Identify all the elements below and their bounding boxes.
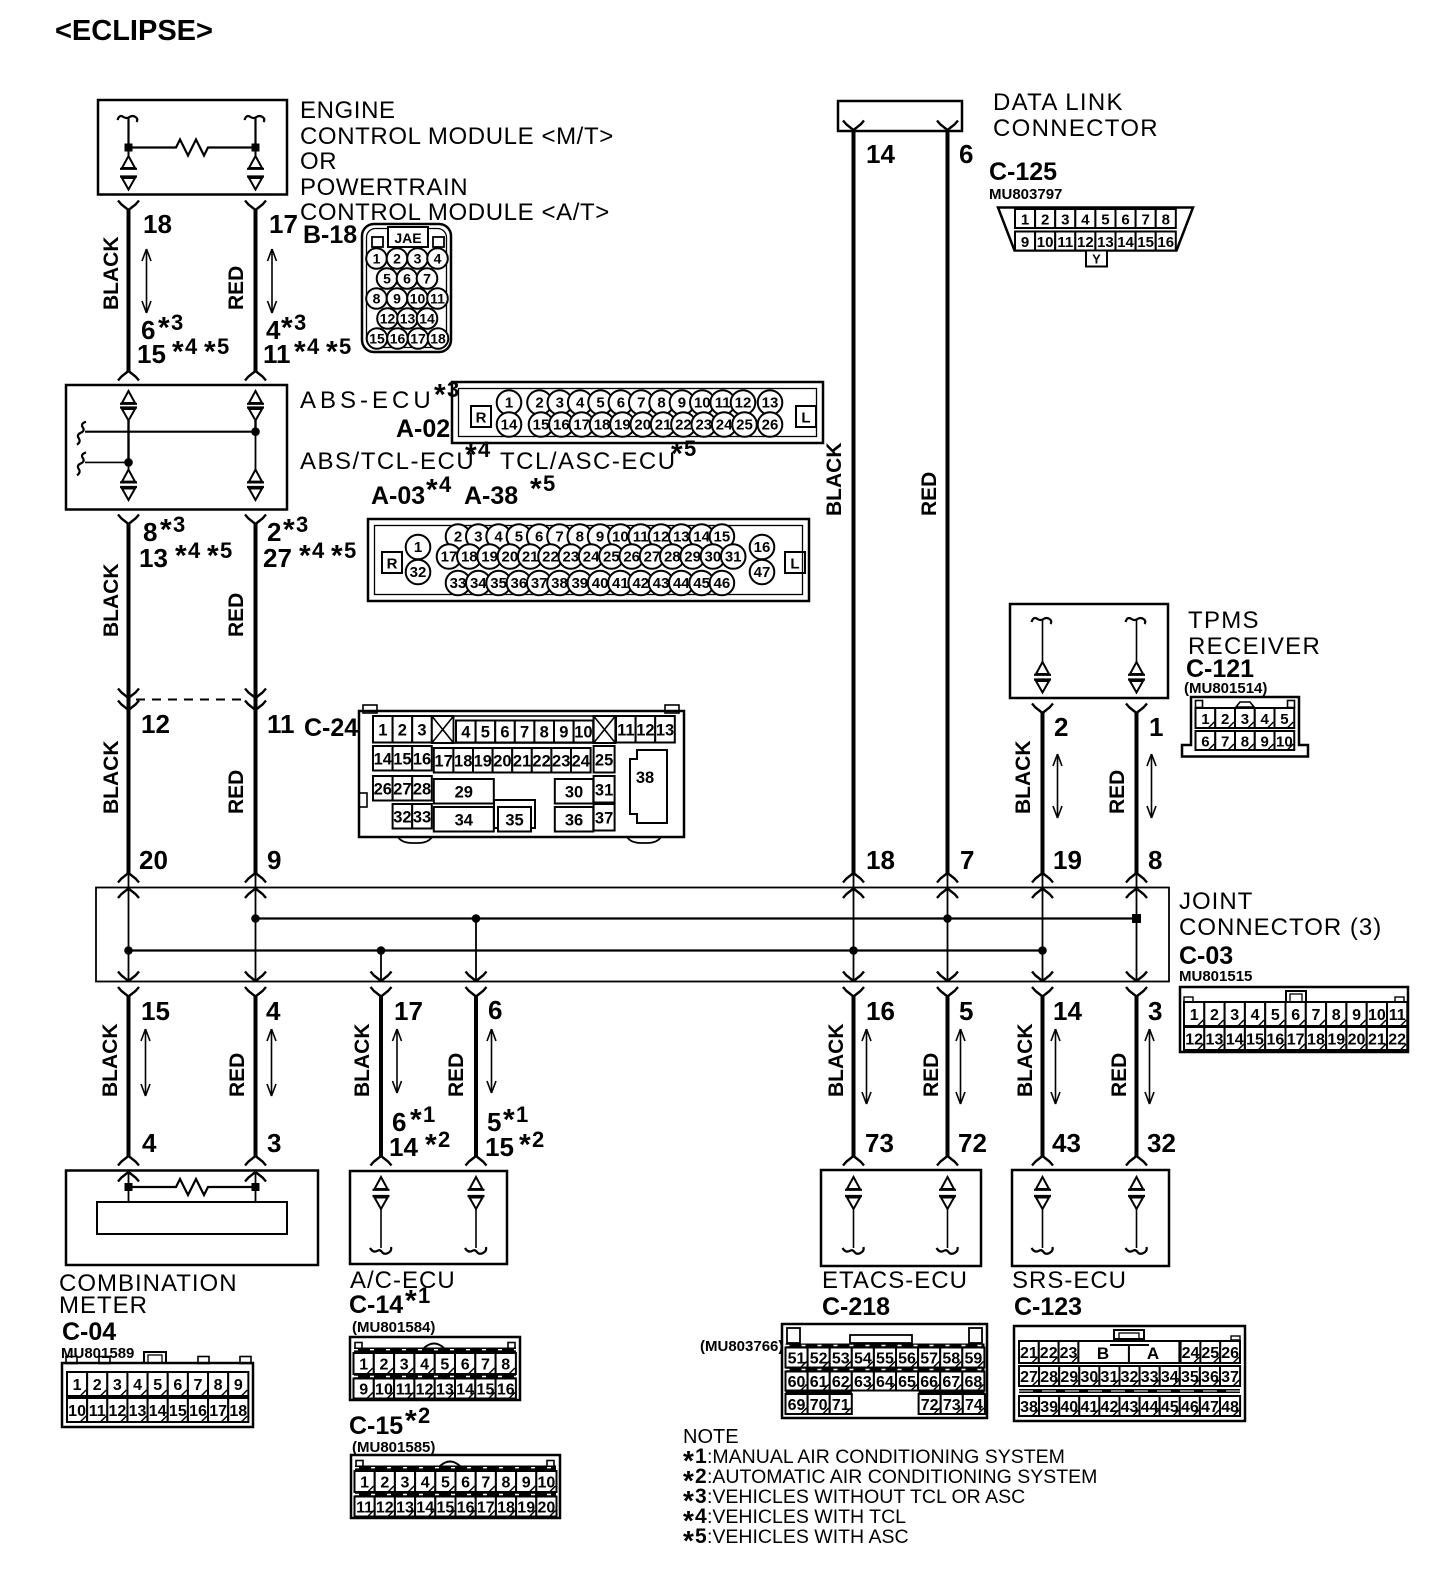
svg-text:10: 10 xyxy=(68,1403,86,1420)
svg-text:9: 9 xyxy=(596,529,604,546)
ABS ECU internal pins and links xyxy=(77,391,264,500)
svg-text:5: 5 xyxy=(441,1475,450,1492)
joint connector pass-through wire 20/15 xyxy=(118,873,139,997)
svg-text:11: 11 xyxy=(430,291,445,307)
svg-text:9: 9 xyxy=(393,291,401,307)
svg-text:14: 14 xyxy=(419,311,435,327)
svg-text:23: 23 xyxy=(562,549,579,566)
svg-text:1: 1 xyxy=(516,1102,528,1127)
svg-text:17: 17 xyxy=(394,996,423,1026)
label engine control module xyxy=(300,97,614,226)
svg-text:R: R xyxy=(476,410,487,427)
svg-text:4: 4 xyxy=(461,724,471,742)
svg-text:14: 14 xyxy=(1053,996,1082,1026)
svg-text:33: 33 xyxy=(413,808,431,826)
svg-text:C-24: C-24 xyxy=(304,714,358,742)
svg-text:4: 4 xyxy=(1081,212,1090,229)
ECU box: combination meter xyxy=(66,1171,318,1266)
svg-text:19: 19 xyxy=(614,417,631,434)
svg-text:19: 19 xyxy=(481,549,498,566)
svg-text:5: 5 xyxy=(596,395,604,412)
svg-text:*: * xyxy=(683,1525,694,1556)
svg-text:21: 21 xyxy=(513,752,531,770)
label combination meter xyxy=(59,1270,238,1362)
ECU box: A/C-ECU xyxy=(350,1171,507,1264)
wire BLACK joint 15 to meter 4 xyxy=(118,997,139,1182)
svg-text:BLACK: BLACK xyxy=(351,1024,374,1098)
connector C-14 pinout xyxy=(350,1337,520,1400)
svg-text:3: 3 xyxy=(556,395,564,412)
svg-text:17: 17 xyxy=(441,549,458,566)
svg-text:26: 26 xyxy=(623,549,640,566)
svg-text:3: 3 xyxy=(1148,996,1162,1026)
svg-text:12: 12 xyxy=(380,311,396,327)
svg-text:2: 2 xyxy=(1041,212,1049,229)
svg-text:8: 8 xyxy=(214,1377,223,1394)
svg-text:BLACK: BLACK xyxy=(1014,1024,1037,1098)
svg-text:POWERTRAIN: POWERTRAIN xyxy=(300,174,468,201)
svg-text:6: 6 xyxy=(461,1357,470,1374)
wire BLACK TPMS 2 xyxy=(1032,704,1053,874)
svg-text:B: B xyxy=(1097,1344,1109,1363)
svg-text:36: 36 xyxy=(511,575,528,592)
svg-text:1: 1 xyxy=(73,1377,82,1394)
svg-text:19: 19 xyxy=(474,752,492,770)
svg-text:4: 4 xyxy=(188,538,201,563)
svg-text:1: 1 xyxy=(418,1283,430,1308)
svg-text:METER: METER xyxy=(59,1292,148,1319)
connector A-03 / A-38 pinout xyxy=(368,519,809,601)
svg-text:14: 14 xyxy=(866,139,895,169)
svg-text:4: 4 xyxy=(576,395,585,412)
svg-text:RED: RED xyxy=(225,266,248,310)
label ETACS-ECU xyxy=(822,1267,968,1321)
wire BLACK data link 14 xyxy=(852,131,856,873)
svg-text:RED: RED xyxy=(445,1053,468,1097)
svg-text:9: 9 xyxy=(678,395,686,412)
svg-text:27: 27 xyxy=(263,543,292,573)
svg-text:34: 34 xyxy=(455,811,474,829)
svg-text:DATA LINK: DATA LINK xyxy=(993,89,1124,116)
svg-text:*: * xyxy=(175,540,187,573)
svg-text:11: 11 xyxy=(267,709,295,739)
joint connector bus bar lower xyxy=(124,946,1047,955)
svg-text:ABS-ECU: ABS-ECU xyxy=(300,387,435,414)
svg-text:C-125: C-125 xyxy=(989,158,1057,186)
svg-text:L: L xyxy=(790,556,799,573)
svg-text:RED: RED xyxy=(225,770,248,814)
svg-text:17: 17 xyxy=(209,1403,227,1420)
svg-text:3: 3 xyxy=(1061,212,1069,229)
svg-text:A-38: A-38 xyxy=(464,482,518,510)
label SRS-ECU xyxy=(1012,1267,1127,1321)
svg-text:24: 24 xyxy=(572,752,591,770)
svg-text:*: * xyxy=(204,336,216,369)
svg-text:25: 25 xyxy=(736,417,753,434)
svg-text:BLACK: BLACK xyxy=(100,564,123,638)
svg-text:BLACK: BLACK xyxy=(100,237,123,311)
svg-text:8: 8 xyxy=(501,1357,510,1374)
svg-text:35: 35 xyxy=(490,575,507,592)
wire BLACK pin 8/13 to joint 20 xyxy=(118,515,139,874)
joint connector tap wire at x=476 xyxy=(466,919,487,997)
labels wires below joint, SRS pair xyxy=(1014,996,1176,1158)
svg-text:6: 6 xyxy=(535,529,543,546)
svg-text:12: 12 xyxy=(141,709,170,739)
svg-text:4: 4 xyxy=(1260,711,1269,728)
svg-text:12: 12 xyxy=(1077,234,1094,251)
svg-text:8: 8 xyxy=(657,395,665,412)
svg-text:8: 8 xyxy=(1148,845,1162,875)
connector C-24 pinout xyxy=(359,705,684,843)
svg-text:(MU803766): (MU803766) xyxy=(700,1338,783,1355)
svg-text:4: 4 xyxy=(133,1377,142,1394)
svg-text:20: 20 xyxy=(493,752,511,770)
svg-text:3: 3 xyxy=(400,1357,409,1374)
svg-text:A/C-ECU: A/C-ECU xyxy=(350,1267,456,1294)
svg-text:24: 24 xyxy=(716,417,733,434)
svg-text:8: 8 xyxy=(1241,734,1249,751)
note block xyxy=(683,1426,1097,1556)
svg-text:(MU801585): (MU801585) xyxy=(352,1439,435,1456)
svg-text:11: 11 xyxy=(89,1403,106,1420)
svg-text:5: 5 xyxy=(220,538,232,563)
connector C-04 pinout xyxy=(62,1352,253,1427)
svg-text:TPMS: TPMS xyxy=(1188,607,1260,634)
svg-text:15: 15 xyxy=(137,339,166,369)
svg-text:A: A xyxy=(1147,1344,1159,1363)
svg-text:18: 18 xyxy=(229,1403,247,1420)
svg-text:4: 4 xyxy=(312,538,325,563)
svg-text:C-14: C-14 xyxy=(349,1291,403,1319)
svg-text:6: 6 xyxy=(173,1377,182,1394)
labels data link wires xyxy=(823,139,973,516)
labels TPMS wires xyxy=(1012,712,1163,875)
box: data link connector xyxy=(838,101,962,131)
svg-text:7: 7 xyxy=(637,395,645,412)
svg-text:6: 6 xyxy=(617,395,625,412)
svg-text:11: 11 xyxy=(715,395,731,412)
wire RED data link 6 xyxy=(946,131,950,873)
SRS-ECU internal pins xyxy=(1032,1177,1147,1254)
svg-text:37: 37 xyxy=(531,575,548,592)
svg-text:BLACK: BLACK xyxy=(825,1024,848,1098)
labels ABS-ECU xyxy=(300,377,696,510)
labels segment 1 left xyxy=(100,209,229,369)
wire RED pin 2/27 to joint 9 xyxy=(245,515,266,874)
svg-text:6: 6 xyxy=(403,271,411,287)
svg-text:15: 15 xyxy=(714,529,731,546)
svg-text:ENGINE: ENGINE xyxy=(300,97,396,124)
svg-text:6: 6 xyxy=(1121,212,1129,229)
svg-text:7: 7 xyxy=(1221,734,1229,751)
joint connector tap wire at x=381 xyxy=(371,951,392,997)
box: joint connector C-03 xyxy=(96,888,1169,982)
svg-text:21: 21 xyxy=(522,549,539,566)
svg-text:73: 73 xyxy=(865,1128,894,1158)
svg-text:16: 16 xyxy=(1157,234,1174,251)
svg-text:A-03: A-03 xyxy=(371,482,425,510)
svg-text:4: 4 xyxy=(421,1475,430,1492)
svg-text:10: 10 xyxy=(410,291,426,307)
svg-text:4: 4 xyxy=(307,334,320,359)
svg-text:10: 10 xyxy=(612,529,629,546)
svg-text:1: 1 xyxy=(1201,711,1209,728)
svg-text:6: 6 xyxy=(1201,734,1209,751)
svg-text:5: 5 xyxy=(1271,1007,1280,1024)
labels wires below joint, ETACS pair xyxy=(825,996,987,1158)
svg-text:3: 3 xyxy=(1230,1007,1239,1024)
svg-text:SRS-ECU: SRS-ECU xyxy=(1012,1267,1127,1294)
svg-text:29: 29 xyxy=(455,783,473,801)
svg-text:36: 36 xyxy=(565,811,583,829)
svg-text:*: * xyxy=(331,540,343,573)
joint connector pass-through wire 7/5 xyxy=(937,873,958,997)
svg-text:13: 13 xyxy=(400,311,416,327)
svg-text:16: 16 xyxy=(866,996,895,1026)
svg-text:8: 8 xyxy=(576,529,584,546)
svg-text:*: * xyxy=(425,1129,437,1162)
svg-text:ABS/TCL-ECU: ABS/TCL-ECU xyxy=(300,448,475,475)
connector B-18 pinout (JAE) xyxy=(362,224,451,352)
svg-text:3: 3 xyxy=(401,1475,410,1492)
svg-text:C-121: C-121 xyxy=(1186,655,1254,683)
svg-text:5: 5 xyxy=(1101,212,1109,229)
svg-text:17: 17 xyxy=(410,331,426,347)
svg-text:7: 7 xyxy=(1311,1007,1320,1024)
svg-text:15: 15 xyxy=(533,417,550,434)
joint connector bus bar upper xyxy=(251,914,1141,923)
svg-text:*: * xyxy=(207,540,219,573)
svg-text:1: 1 xyxy=(1149,712,1163,742)
svg-text:RED: RED xyxy=(226,1053,249,1097)
svg-text:43: 43 xyxy=(653,575,670,592)
svg-text:9: 9 xyxy=(234,1377,243,1394)
svg-text:42: 42 xyxy=(632,575,649,592)
svg-text:13: 13 xyxy=(656,721,674,739)
svg-text:39: 39 xyxy=(571,575,588,592)
svg-text:L: L xyxy=(801,410,810,427)
svg-text:4: 4 xyxy=(494,529,503,546)
svg-text:37: 37 xyxy=(595,809,613,827)
svg-text:Y: Y xyxy=(1092,252,1101,267)
svg-text:29: 29 xyxy=(684,549,701,566)
svg-text:3: 3 xyxy=(296,512,308,537)
svg-text:3: 3 xyxy=(267,1128,281,1158)
svg-text:33: 33 xyxy=(450,575,467,592)
svg-text:18: 18 xyxy=(461,549,478,566)
svg-text:7: 7 xyxy=(481,1475,490,1492)
connector C-15 pinout xyxy=(351,1455,560,1518)
ECU box: ABS-ECU / ABS-TCL-ECU xyxy=(66,385,287,510)
svg-text:JAE: JAE xyxy=(394,230,421,246)
svg-text:25: 25 xyxy=(603,549,620,566)
label A/C-ECU xyxy=(349,1267,456,1336)
connector C-121 pinout xyxy=(1182,697,1308,757)
svg-text:8: 8 xyxy=(540,724,549,742)
svg-text:20: 20 xyxy=(502,549,519,566)
svg-text:*: * xyxy=(426,474,438,507)
svg-text:5: 5 xyxy=(481,724,490,742)
svg-text:16: 16 xyxy=(189,1403,207,1420)
svg-text:8: 8 xyxy=(1162,212,1170,229)
svg-text:MU803797: MU803797 xyxy=(989,186,1062,203)
svg-text:14: 14 xyxy=(693,529,710,546)
svg-text:1: 1 xyxy=(378,721,387,739)
labels segment 2 left xyxy=(100,512,232,875)
svg-text:JOINT: JOINT xyxy=(1179,888,1253,915)
svg-text:9: 9 xyxy=(359,1382,368,1399)
svg-text:31: 31 xyxy=(595,781,613,799)
svg-text:16: 16 xyxy=(553,417,570,434)
svg-text:38: 38 xyxy=(636,769,654,787)
svg-text:9: 9 xyxy=(1352,1007,1361,1024)
svg-text:1: 1 xyxy=(1021,212,1029,229)
svg-text:26: 26 xyxy=(374,780,392,798)
svg-text:30: 30 xyxy=(705,549,722,566)
svg-text::VEHICLES WITH TCL: :VEHICLES WITH TCL xyxy=(707,1506,906,1528)
svg-text:BLACK: BLACK xyxy=(1012,741,1035,815)
svg-text:19: 19 xyxy=(1053,845,1082,875)
svg-text:3: 3 xyxy=(474,529,482,546)
svg-text:32: 32 xyxy=(1147,1128,1176,1158)
connector C-123 pinout xyxy=(1014,1326,1245,1421)
svg-text::MANUAL AIR CONDITIONING SYSTE: :MANUAL AIR CONDITIONING SYSTEM xyxy=(707,1446,1065,1468)
svg-text:7: 7 xyxy=(555,529,563,546)
svg-text:C-218: C-218 xyxy=(822,1293,890,1321)
svg-text:47: 47 xyxy=(754,564,771,581)
svg-text:5: 5 xyxy=(695,1525,707,1548)
svg-text:(MU801584): (MU801584) xyxy=(352,1319,435,1336)
svg-text:9: 9 xyxy=(1021,234,1029,251)
svg-text:*: * xyxy=(160,514,172,547)
svg-text:5: 5 xyxy=(515,529,523,546)
svg-text:*: * xyxy=(434,379,446,412)
wire RED joint 6 to A/C 5/15 xyxy=(466,997,487,1166)
svg-text:5: 5 xyxy=(217,334,229,359)
svg-text:OR: OR xyxy=(300,148,337,175)
svg-text:*: * xyxy=(519,1129,531,1162)
svg-text:1: 1 xyxy=(414,539,422,556)
svg-text:2: 2 xyxy=(535,395,543,412)
label data link connector xyxy=(989,89,1159,203)
svg-text:6: 6 xyxy=(461,1475,470,1492)
joint connector pass-through wire 9/4 xyxy=(245,873,266,997)
svg-text:43: 43 xyxy=(1052,1128,1081,1158)
svg-text:24: 24 xyxy=(583,549,600,566)
svg-text:RED: RED xyxy=(918,472,941,516)
svg-text:MU801589: MU801589 xyxy=(61,1345,134,1362)
svg-text:13: 13 xyxy=(139,543,168,573)
svg-text:15: 15 xyxy=(369,331,385,347)
label TPMS receiver xyxy=(1184,607,1321,697)
svg-text:CONTROL MODULE <M/T>: CONTROL MODULE <M/T> xyxy=(300,123,614,150)
svg-text:21: 21 xyxy=(655,417,672,434)
svg-text:16: 16 xyxy=(390,331,406,347)
svg-text:*: * xyxy=(530,473,542,506)
labels wires below joint, meter pair xyxy=(99,996,281,1158)
svg-text:12: 12 xyxy=(653,529,670,546)
connector C-03 pinout xyxy=(1180,987,1408,1052)
svg-text:9: 9 xyxy=(1260,734,1268,751)
wire BLACK joint 14 to SRS 43 xyxy=(1032,997,1053,1166)
svg-text:2: 2 xyxy=(398,721,407,739)
svg-text:3: 3 xyxy=(414,251,422,267)
wire RED joint 4 to meter 3 xyxy=(245,997,266,1182)
svg-text:C-03: C-03 xyxy=(1179,942,1233,970)
svg-text:2: 2 xyxy=(1054,712,1068,742)
svg-text:2: 2 xyxy=(393,251,401,267)
wire RED TPMS 1 xyxy=(1126,704,1147,874)
wire RED pin 17 to pin 4/11 xyxy=(245,201,266,381)
svg-text:A-02: A-02 xyxy=(396,415,450,443)
svg-text:B-18: B-18 xyxy=(303,221,357,249)
svg-text:28: 28 xyxy=(664,549,681,566)
svg-text:*: * xyxy=(172,336,184,369)
svg-text:15: 15 xyxy=(169,1403,187,1420)
svg-text:5: 5 xyxy=(959,996,973,1026)
joint connector pass-through wire 18/16 xyxy=(843,873,864,997)
wire BLACK pin 18 to pin 6/15 xyxy=(118,201,139,381)
svg-text:2: 2 xyxy=(379,1357,388,1374)
svg-text:14: 14 xyxy=(1117,234,1134,251)
svg-text:2: 2 xyxy=(418,1403,430,1428)
svg-text:ETACS-ECU: ETACS-ECU xyxy=(822,1267,968,1294)
svg-text:5: 5 xyxy=(383,271,391,287)
svg-text:3: 3 xyxy=(173,512,185,537)
svg-text:7: 7 xyxy=(960,845,974,875)
svg-text:7: 7 xyxy=(481,1357,490,1374)
box: TPMS receiver xyxy=(1010,604,1168,698)
svg-text:5: 5 xyxy=(1280,711,1288,728)
svg-text::VEHICLES WITHOUT TCL OR ASC: :VEHICLES WITHOUT TCL OR ASC xyxy=(707,1486,1025,1508)
svg-text:5: 5 xyxy=(543,471,555,496)
svg-text:1: 1 xyxy=(373,251,381,267)
svg-text:2: 2 xyxy=(1221,711,1229,728)
svg-text:15: 15 xyxy=(1137,234,1154,251)
svg-text:5: 5 xyxy=(440,1357,449,1374)
svg-text:<ECLIPSE>: <ECLIPSE> xyxy=(55,15,213,47)
svg-text:10: 10 xyxy=(694,395,711,412)
svg-text:44: 44 xyxy=(673,575,690,592)
svg-text:12: 12 xyxy=(735,395,752,412)
labels wires below joint, A/C pair xyxy=(351,995,544,1162)
svg-text:*: * xyxy=(283,514,295,547)
svg-text:3: 3 xyxy=(171,310,183,335)
wire RED joint 5 to ETACS 72 xyxy=(937,997,958,1166)
svg-text:23: 23 xyxy=(552,752,570,770)
svg-text:4: 4 xyxy=(266,996,281,1026)
svg-text:18: 18 xyxy=(594,417,611,434)
svg-text:11: 11 xyxy=(263,339,291,369)
svg-text:BLACK: BLACK xyxy=(99,1024,122,1098)
svg-text:26: 26 xyxy=(762,417,779,434)
svg-text:4: 4 xyxy=(434,251,442,267)
svg-text:5: 5 xyxy=(344,538,356,563)
svg-text:(MU801514): (MU801514) xyxy=(1184,680,1267,697)
connector C-125 pinout xyxy=(998,208,1193,267)
svg-text:RED: RED xyxy=(225,593,248,637)
dashed tie line xyxy=(136,699,248,701)
svg-text:3: 3 xyxy=(1241,711,1249,728)
svg-text:9: 9 xyxy=(522,1475,531,1492)
svg-text:8: 8 xyxy=(502,1475,511,1492)
svg-text:18: 18 xyxy=(143,209,172,239)
svg-text::AUTOMATIC AIR CONDITIONING SY: :AUTOMATIC AIR CONDITIONING SYSTEM xyxy=(707,1466,1097,1488)
svg-text:5: 5 xyxy=(153,1377,162,1394)
labels segment 1 right xyxy=(225,209,351,369)
svg-text:18: 18 xyxy=(866,845,895,875)
